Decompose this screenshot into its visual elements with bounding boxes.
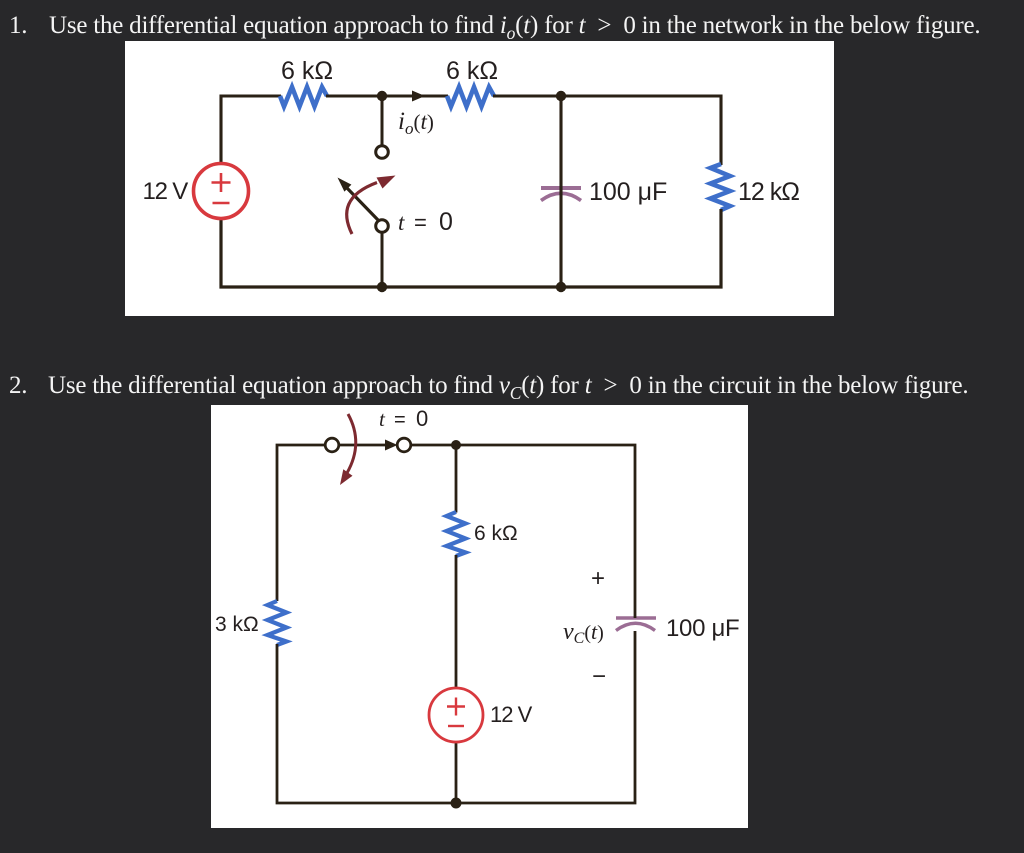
switch arrow — [385, 440, 398, 451]
switch motion arc (maroon) — [347, 183, 377, 235]
wire top-left corner from source to resistor R1 — [221, 96, 281, 164]
resistor R2 6 kOhm zigzag — [447, 87, 494, 107]
source V1 plus — [212, 173, 231, 203]
figure 2 — [211, 405, 748, 828]
svg-text:3 kΩ: 3 kΩ — [215, 613, 259, 636]
svg-text:vC(t): vC(t) — [563, 619, 604, 647]
node A dot — [377, 91, 387, 101]
switch motion arrowhead (maroon) — [377, 176, 396, 189]
node dot bottom — [451, 798, 462, 809]
svg-text:6 kΩ: 6 kΩ — [281, 57, 333, 85]
source V2 circle — [429, 688, 483, 742]
capacitor branch wire — [559, 96, 562, 287]
wire below switch — [381, 232, 384, 287]
problem 1 statement — [9, 13, 27, 39]
node dot top — [451, 440, 461, 450]
source V1 circle — [194, 164, 249, 219]
svg-text:6 kΩ: 6 kΩ — [474, 522, 518, 545]
switch blade arrowhead — [338, 178, 352, 192]
resistor R4 3 kOhm zigzag — [268, 601, 287, 645]
node C dot — [377, 282, 387, 292]
wire left top corner to switch circle — [277, 445, 326, 601]
svg-text:+: + — [591, 565, 605, 592]
svg-text:t=0: t=0 — [398, 208, 453, 236]
svg-text:io(t): io(t) — [398, 108, 434, 138]
capacitor C1 plates (100 uF) — [541, 188, 581, 201]
svg-text:−: − — [592, 663, 606, 690]
node D dot — [556, 282, 566, 292]
wire below source — [455, 742, 458, 803]
switch stub top — [381, 96, 384, 146]
current arrow i_o — [412, 91, 425, 102]
right wire upper — [411, 445, 636, 618]
switch lower contact circle — [376, 220, 389, 233]
wire between switch contacts — [339, 444, 389, 447]
switch contact circle 1 — [325, 438, 339, 452]
figure 1 — [125, 41, 834, 316]
switch contact circle 2 — [397, 438, 411, 452]
wire top-right corner — [493, 96, 721, 165]
source V2 plus minus — [447, 698, 465, 727]
svg-text:100 μF: 100 μF — [666, 615, 739, 642]
wire node A to resistor R2 — [326, 94, 448, 97]
svg-text:6 kΩ: 6 kΩ — [446, 57, 498, 85]
wire right-bottom-left U shape — [221, 209, 721, 287]
resistor R1 6 kOhm zigzag — [280, 87, 327, 107]
wire left-bottom-right — [277, 631, 635, 803]
switch upper contact circle — [376, 146, 389, 159]
switch motion arrowhead (maroon) — [340, 469, 353, 485]
svg-text:12 V: 12 V — [143, 178, 189, 205]
switch blade — [347, 188, 378, 220]
resistor R3 12 kOhm zigzag — [711, 164, 731, 210]
middle branch upper wire — [455, 445, 458, 513]
switch motion arc (maroon) — [347, 414, 356, 473]
svg-text:t=0: t=0 — [379, 406, 428, 431]
svg-text:100 μF: 100 μF — [589, 178, 667, 206]
middle branch wire to source — [455, 555, 458, 688]
node B dot — [556, 91, 566, 101]
svg-text:12 V: 12 V — [490, 702, 533, 727]
problem 2 statement — [9, 373, 27, 399]
capacitor C2 plates (100 uF) — [616, 618, 656, 631]
resistor R5 6 kOhm zigzag — [447, 512, 466, 556]
svg-text:12 kΩ: 12 kΩ — [738, 178, 799, 206]
